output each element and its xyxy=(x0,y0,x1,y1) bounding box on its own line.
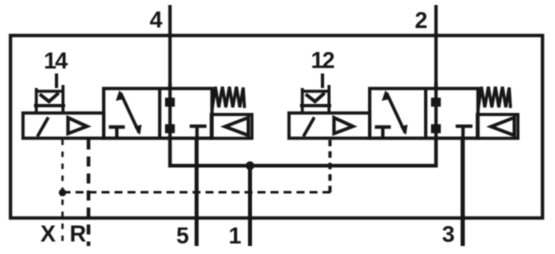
svg-text:X: X xyxy=(40,221,56,247)
svg-text:4: 4 xyxy=(150,7,163,33)
svg-text:3: 3 xyxy=(442,221,455,247)
svg-text:2: 2 xyxy=(415,7,428,33)
svg-text:14: 14 xyxy=(44,47,68,73)
svg-text:1: 1 xyxy=(229,223,242,249)
svg-text:5: 5 xyxy=(176,223,189,249)
svg-text:12: 12 xyxy=(311,47,334,73)
svg-text:R: R xyxy=(70,221,87,247)
